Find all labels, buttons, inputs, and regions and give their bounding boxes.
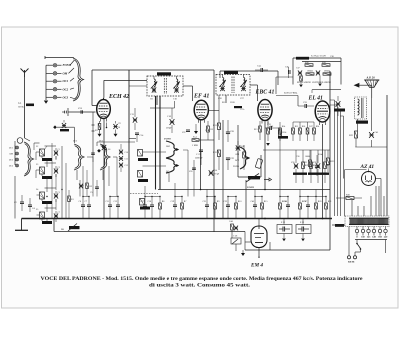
node C18 [151,196,152,197]
wire C6 [82,207,84,219]
wire R10 [235,209,237,219]
wire heater 1 [375,186,377,216]
resistor R24 [313,128,316,134]
wire outer box left [91,70,93,106]
wire vertical volume [245,180,247,219]
wire vertical under MF2 [222,120,224,219]
svg-text:OM: OM [166,146,170,148]
svg-text:di uscita 3 watt. Consumo 45: di uscita 3 watt. Consumo 45 watt. [149,284,250,289]
wire C18 [151,207,153,219]
node C45 [254,196,255,197]
wire r18 up [279,150,281,197]
capacitor C7 [87,205,91,207]
wire cap top stub [283,219,285,225]
node R7 [181,196,182,197]
chassis ground bar [15,229,28,231]
label smudge MF2 below [234,106,242,108]
wire C29 low [227,160,229,170]
wire segment B left corner [219,71,221,78]
svg-text:200kΩ: 200kΩ [324,71,330,73]
wire EF41 grid entry [192,86,194,101]
wire c6 up [82,185,84,197]
ground electrolytic [301,239,305,242]
electrolytic capacitor box 2 [296,225,311,234]
wire cap top stub [302,219,304,225]
wire MF2 [243,75,245,78]
svg-text:VOCE DEL PADRONE - Mod. 1515: VOCE DEL PADRONE - Mod. 1515. Onde medie… [41,277,364,282]
trimmer MF1 [152,87,156,92]
capacitor C32 [270,126,272,130]
wire trim join c [55,199,57,210]
wire R18 [279,209,281,219]
wire far right rail [386,95,388,216]
wire MF1 [176,87,178,93]
wire C31 [317,150,319,163]
wire to ECH42 grid [68,111,96,113]
capacitor C22 [226,205,230,207]
wire MF2 to EBC41 [250,84,258,86]
svg-text:C 23: C 23 [196,153,201,156]
svg-text:C20: C20 [189,171,192,173]
node R20 [315,196,316,197]
switch1 wiper brace [73,58,84,101]
wire MF2 sec down [225,95,227,103]
wire contact OC2 to wiper [70,88,74,89]
node C17 [144,196,145,197]
resistor R15 [261,203,264,209]
resistor R17 [306,128,309,134]
potentiometer arrow [232,239,238,244]
wire C23 down [200,152,202,166]
wire coil1 down [46,158,48,167]
wire C7 [88,207,90,219]
svg-text:R24: R24 [316,126,319,128]
wire padder 2 [29,207,31,213]
node R15 [261,196,262,197]
label value C31 [315,173,322,175]
wire coil4 to bus [46,219,48,222]
wire osc box top [97,141,135,143]
svg-text:L5: L5 [36,209,38,211]
resistor R5 [207,126,210,132]
wire switch1 stub OC1 [46,80,53,82]
wire switch1 stub OC2 [46,88,53,90]
wire cap down [283,234,285,239]
wire MF2 [222,86,224,92]
wire AF coupling down [297,96,299,107]
inductor L9 [140,199,145,206]
wire feedback gnd [319,76,321,83]
switch1 contact OM [53,72,56,75]
wire AZ41 to transformer [344,170,346,217]
component box EM4 grid [231,238,241,244]
wire L8 to FONO switch [143,165,167,167]
label L8 value [138,179,148,182]
wire R29C41 bottoms to rail [355,146,387,148]
svg-text:325Ω: 325Ω [230,102,235,104]
svg-text:RETE: RETE [348,261,355,264]
cap lead [298,228,302,230]
capacitor C36 [289,70,291,74]
wire lower bus [54,231,245,233]
label MF1 46870 [157,72,171,75]
wire C30 [295,150,297,163]
wire left vertical rail [128,70,130,219]
label value C30 [293,173,300,175]
wire C12 [117,207,119,219]
node R18 [279,196,280,197]
resistor R23 [327,158,330,165]
svg-text:C21: C21 [203,201,207,203]
wire brace drop [76,170,78,180]
label rivelazione smudge [278,136,288,139]
wire ECH42 section top [104,79,147,81]
wire AF bus y150 [263,149,330,151]
wire R14 leads [279,122,281,128]
MF1 tuning arrow [173,82,179,89]
potentiometer R13 body [248,176,260,179]
wire plug 1 [355,251,361,253]
wire stub C25 [62,111,65,113]
wire tap 220 [385,227,387,230]
transformer core 1 [361,98,363,118]
inductor osc coil L2 [40,149,45,156]
wire R29 down [355,138,357,147]
node bank [61,189,62,190]
wire FONO brace tail [168,173,170,182]
power transformer windings [350,218,388,225]
svg-text:C22: C22 [224,201,228,203]
wire contact OC1 to wiper [70,78,74,81]
wire heater 3 [370,196,372,216]
wire drop to lower bus [53,219,55,232]
wire coil1 left [36,151,40,153]
wire pair C6C7 [83,196,89,198]
wire R2 leads [86,189,88,197]
cap plate 1 [301,227,303,232]
resistor R13a [243,152,246,158]
label value R19 [300,173,307,175]
wire R15 [261,209,263,219]
wire trim join a [55,156,57,160]
svg-text:R17: R17 [309,126,312,128]
cap lead [279,228,283,230]
wire R11 down [218,130,220,141]
wire R24 leads [313,122,315,128]
cap plate 1 [282,227,284,232]
wire EF41 grid right [209,110,220,112]
svg-text:R16: R16 [302,126,305,128]
resistor R17 [231,224,234,230]
wire coil4 left [37,214,40,216]
switch FONO brace lower [166,158,177,173]
resistor R22 cathode [309,160,312,167]
trimmer MF1 [174,87,178,92]
svg-text:OC: OC [166,171,170,173]
wire main ground bus (thick) [22,218,333,220]
wire C41 down [371,140,373,147]
wire bank v2 [65,163,67,219]
switch contact dot b [360,248,362,250]
wire C34 leads [263,69,269,71]
wire EM4 left encl [244,242,246,250]
wire EF41 cathode down [200,120,202,190]
svg-text:C11: C11 [125,159,128,161]
capacitor C22a [186,130,190,132]
resistor R21 [324,162,327,169]
trimmer C49 [236,145,240,150]
wire tap 160 [379,227,381,230]
wire bank v4 [51,146,53,219]
node R21 [325,196,326,197]
trimmer osc 4 [54,213,58,218]
resistor R20 [310,162,313,169]
wire L7 to FONO switch [143,151,167,153]
svg-text:R9: R9 [217,201,220,203]
resistor smoothing [346,197,354,200]
wire B+ run 4 [343,116,345,179]
wire pair C45R15 [255,196,262,198]
svg-text:OC2: OC2 [235,160,239,162]
wire right section rail [329,71,331,250]
svg-text:C5: C5 [58,192,60,194]
wire C19 [174,207,176,219]
speaker frame [364,79,379,81]
label L7 value [138,158,148,161]
wire ant to bank [25,138,31,141]
capacitor C37 [298,70,302,75]
IF transformer MF1 box [147,76,183,96]
resistor divider [300,76,303,81]
svg-text:C10: C10 [125,152,128,154]
wire C36 up [288,67,290,72]
wire feedback box right [340,58,342,85]
wire phono box left [237,125,239,177]
wire under EF41 a [187,150,189,197]
svg-text:C22: C22 [182,132,185,134]
wire coil3 down [46,201,48,212]
svg-text:500pF: 500pF [166,128,172,130]
resistor C48 [267,128,270,134]
switch2 wiper brace [24,142,34,176]
wire AF coupling [276,95,298,97]
wire R15 leads [292,122,294,128]
wire ant coupling [57,126,75,128]
svg-text:C11: C11 [106,201,110,203]
transformer core 2 [362,98,364,118]
pentagrid converter ECH42 [97,98,111,122]
label L9 value [140,207,150,210]
switch1 contact OC3 [53,96,56,99]
wire to switch [356,240,358,244]
resistor R21 [325,203,328,209]
node C19 [174,196,175,197]
wire AZ41 right down [380,179,382,217]
wire stub left of EF41 [150,107,160,109]
switch wafer brace [100,144,110,170]
capacitor C34 [261,68,263,72]
wire R1 leads [68,202,70,219]
label osc coil 4 [42,201,52,204]
wire EF41 cathode gnd lead [195,124,197,131]
svg-text:L3: L3 [36,164,38,166]
tick osc 1 [92,124,95,126]
coil top circle [17,138,23,144]
wire bus left drop [21,219,23,231]
label output transformer [356,121,368,124]
power transformer box [345,216,389,227]
svg-text:AZ 41: AZ 41 [360,164,375,170]
wire heater 2 [378,186,380,216]
wire feedback bottom hook [311,90,313,93]
wire corner down [174,101,176,108]
cap plate 2 [284,227,286,232]
wire hook under EF41 [183,149,188,151]
wire stub to corner [160,107,175,109]
wire MF1 [153,87,155,93]
switch2 contact OC3 [16,164,19,167]
wire brace drop2 [108,166,110,186]
ground C9 [114,134,118,137]
wire sw2 top [14,141,16,145]
wire under brace 1 [79,180,81,197]
trimmer osc 2 [54,168,58,173]
detector EBC41 [258,100,272,124]
ground R3 [98,134,102,137]
capacitor C39 tone [336,101,341,107]
wire quad R19-R21 [300,196,326,198]
wire R13a leads [243,158,245,170]
terminal diamond osc [97,149,101,153]
wire HT 2 [363,206,365,216]
tap terminal 140 [372,229,375,232]
svg-text:R1: R1 [71,199,74,201]
wire R9 [214,209,216,219]
switch1 contact FONO [53,63,56,66]
wire bank diag [45,146,48,150]
trimmer tuning [119,156,123,161]
wire switch common [45,65,47,100]
wire c19 up [174,183,176,197]
wire tap 125 [368,227,370,230]
switch2 contact OC1 [16,146,19,149]
MF2 tuning arrow [219,80,225,87]
trimmer C5 ant [62,123,66,128]
svg-text:L2: L2 [36,146,38,148]
svg-text:C3: C3 [58,167,60,169]
wire lower bus to EM4 encl [244,232,246,243]
wire bank v1 [61,146,63,219]
wire C45 [254,207,256,219]
wire C13 [134,123,136,130]
wire AZ41 left [345,169,367,171]
wire R22 [309,167,311,176]
wire B+ hook 1 [330,99,335,101]
wire C22 [227,207,229,219]
wire R11 up [218,95,220,123]
wire R16 leads [299,122,301,128]
wire R19 [302,150,304,162]
wire EBC41 cathode down [264,122,266,190]
wire R6 [159,209,161,219]
svg-text:C31: C31 [313,162,316,164]
resistor R18 [279,203,282,209]
wire bank h1 [34,142,40,144]
capacitor C29 [226,158,230,160]
cap lead 2 [304,228,309,230]
svg-text:50: 50 [118,127,120,129]
capacitor C33 coupling [305,104,307,108]
wire C28 [227,120,229,132]
trimmer MF2 [220,86,224,91]
wire r19 up [299,190,301,197]
wire R14 down [279,137,281,151]
wire MF2 [243,86,245,92]
resistor R29 [355,131,358,138]
trimmer osc 3 [54,193,58,198]
wire brace drop [102,170,104,180]
wire R12 down [218,157,220,171]
resistor R11 [218,123,221,130]
tap terminal 110 [361,229,364,232]
wire det top link [293,121,314,123]
wire MF1 [153,76,155,79]
capacitor C46 [286,205,290,207]
switch2 contact OM [16,152,19,155]
wire B+ run 1 [334,100,336,216]
wire C9 down [115,130,117,134]
wire C39 dn [337,107,339,116]
resistor R2 [86,183,89,189]
node avc EF41 [200,189,202,191]
wire feedback box bottom [312,89,341,91]
resistor R13 diode load [259,126,262,132]
electrolytic capacitor box 1 [277,225,292,234]
rectifier AZ41 [362,172,376,186]
wire speaker down [371,85,373,98]
wire R20 [315,209,317,219]
wire AZ41 anode [368,169,370,172]
svg-text:R14: R14 [282,126,285,128]
wire brace drop2 [82,166,84,186]
wire feedback inner top [302,61,341,63]
inductor L8 [138,171,143,178]
switch1 contact OC1 [53,80,56,83]
wire EM4 top lead [258,219,260,227]
inductor MF2 winding [244,78,245,86]
wire arrow to speaker [359,84,372,86]
trimmer tuning [119,163,123,168]
wire R17 leads [307,122,309,128]
svg-text:C19: C19 [171,201,175,203]
wire R7 [181,209,183,219]
inductor osc coil L3 [40,167,45,174]
node bus EL41 [322,218,324,220]
wire feedback to EBC [275,77,277,94]
capacitor C23 [199,150,203,152]
ground EM4 [241,253,245,256]
resistor R4 [192,139,199,142]
wire antenna lead [24,77,26,138]
wire pair C22R10 [228,196,236,198]
wire cap down [302,234,304,239]
svg-text:C12: C12 [114,201,118,203]
capacitor C45 [253,205,257,207]
wire AVC vertical 2 [159,96,161,190]
resistor R3 screen [98,124,101,130]
node C7 [88,196,89,197]
svg-text:OC1: OC1 [235,148,239,150]
